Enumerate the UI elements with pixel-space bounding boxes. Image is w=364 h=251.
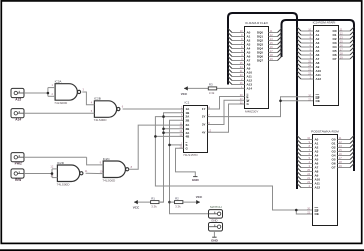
ROM pin A9 wire + bus entry [301, 66, 314, 68]
wire branch -> PODSTAWKA OE [296, 210, 312, 214]
wire VCC -> R1 [134, 201, 150, 203]
svg-text:IC1: IC1 [185, 101, 190, 105]
IC1 pin 13 (4B) stub [182, 135, 184, 137]
RAM pin A6 wire + bus entry [232, 56, 245, 58]
svg-text:R2: R2 [175, 196, 179, 200]
ROM chip IC3-ROM-ATARI [314, 26, 339, 106]
RAM pin A1 wire + bus entry [232, 36, 245, 38]
wire net V3 -> R2 [170, 201, 175, 203]
IC1 pin 3 (1B) stub [182, 112, 184, 114]
RAM pin DQ0 wire + bus entry [269, 32, 278, 34]
junction V2/3B [162, 128, 165, 131]
wire IC1 2Y -> ROM CE [209, 97, 313, 117]
wire IC1 3B stub [164, 128, 182, 130]
ROM pin O5 wire + bus entry [339, 50, 351, 52]
connector A15 [11, 88, 24, 101]
svg-text:SWITCH: SWITCH [210, 205, 222, 209]
RAM pin A7 wire + bus entry [232, 60, 245, 62]
IC1 pin 6 (2B) stub [182, 119, 184, 121]
RAM pin A0 wire + bus entry [232, 32, 245, 34]
PODSTAWKA pin A4 wire + bus entry [301, 155, 313, 157]
RAM pin DQ5 wire + bus entry [269, 52, 278, 54]
ROM pin A12 wire + bus entry [301, 78, 314, 80]
switch connector (upper) [209, 210, 223, 219]
svg-text:IC2A: IC2A [55, 80, 63, 84]
RAM pin DQ6 wire + bus entry [269, 56, 278, 58]
svg-text:74LS00D: 74LS00D [94, 118, 108, 122]
RAM pin DQ7 wire + bus entry [269, 60, 278, 62]
junction R/W/IC2D inputs [51, 172, 54, 175]
RAM pin A3 wire + bus entry [232, 44, 245, 46]
PODSTAWKA pin O5 wire + bus entry [338, 159, 351, 161]
wire VCC - R3 - RAM A14 [184, 87, 245, 89]
ROM pin A6 wire + bus entry [301, 54, 314, 56]
IC1 pin 9 (3Y) stub [208, 124, 210, 126]
IC1 pin 12 (4Y) stub [208, 131, 210, 133]
data bus (RAM DQ -> ROM/PODSTAWKA outputs) [282, 20, 355, 171]
RAM pin A10 wire + bus entry [232, 72, 245, 74]
ROM pin A10 wire + bus entry [301, 70, 314, 72]
wire branch -> ROM OE [281, 100, 314, 102]
svg-text:VCC: VCC [181, 92, 188, 96]
svg-text:VCC: VCC [133, 206, 140, 210]
svg-text:A14: A14 [247, 87, 253, 91]
RAM pin A5 wire + bus entry [232, 52, 245, 54]
wire IC2D out pin11 -> IC2C pin10 [86, 172, 104, 174]
wire R/W -> IC2D inputs [24, 173, 52, 175]
svg-text:PODSTAWKA-ROM: PODSTAWKA-ROM [311, 129, 339, 133]
wire IC1 3Y -> RAM W [209, 100, 245, 124]
svg-text:O7: O7 [331, 166, 335, 170]
svg-text:74LS00D: 74LS00D [54, 101, 68, 105]
IC1 pin 2 (1A) stub [182, 108, 184, 110]
RAM pin A11 wire + bus entry [232, 76, 245, 78]
svg-text:A12: A12 [315, 186, 321, 190]
IC1 pin 10 (3B) stub [182, 128, 184, 130]
junction V2/4A [162, 131, 165, 134]
RAM pin A4 wire + bus entry [232, 48, 245, 50]
wire net V3: IC1 2B -> down -> SWITCH [170, 120, 209, 214]
connector A14 [11, 109, 24, 122]
wire IC2B out -> IC1 1A [123, 108, 182, 110]
ROM pin A2 wire + bus entry [301, 38, 314, 40]
PODSTAWKA pin A5 wire + bus entry [301, 159, 313, 161]
ROM pin A11 wire + bus entry [301, 74, 314, 76]
IC1 pin 7 (2Y) stub [208, 116, 210, 118]
svg-text:IC2B: IC2B [94, 97, 101, 101]
RAM pin A12 wire + bus entry [232, 80, 245, 82]
ROM pin O7 wire + bus entry [339, 58, 351, 60]
power VCC at R2 [196, 195, 203, 204]
junction V3/R2 [168, 201, 171, 204]
address bus (RAM left -> ROM/PODSTAWKA left) [228, 13, 297, 189]
svg-text:M48Z30Y: M48Z30Y [245, 109, 258, 113]
svg-text:2Y: 2Y [202, 115, 206, 119]
junction ROM OE [279, 100, 282, 103]
ROM pin A8 wire + bus entry [301, 62, 314, 64]
svg-text:GND: GND [192, 178, 200, 182]
svg-text:OE: OE [315, 212, 319, 216]
wire PHI2 -> IC2C pin9 [87, 157, 104, 165]
wire IC1 S pin stub [170, 144, 182, 146]
svg-text:DQ7: DQ7 [257, 59, 263, 63]
ROM pin O1 wire + bus entry [339, 34, 351, 36]
RAM pin DQ4 wire + bus entry [269, 48, 278, 50]
RAM pin DQ3 wire + bus entry [269, 44, 278, 46]
svg-text:74LS00D: 74LS00D [57, 182, 71, 186]
PODSTAWKA pin A7 wire + bus entry [301, 167, 313, 169]
wire A15 -> IC2A inputs [24, 92, 48, 94]
socket chip PODSTAWKA-ROM [313, 135, 338, 226]
RAM chip IC-RAM-R FLEX (M48Z30Y) [245, 27, 269, 109]
wire IC2D input tie [51, 169, 53, 178]
wire net V2: IC1 1B -> down -> R1 [159, 113, 182, 202]
PODSTAWKA pin A9 wire + bus entry [301, 175, 313, 177]
svg-text:R3: R3 [209, 83, 213, 87]
ROM pin O2 wire + bus entry [339, 38, 351, 40]
junction V2/2A [162, 115, 165, 118]
PODSTAWKA pin O4 wire + bus entry [338, 155, 351, 157]
PODSTAWKA pin A8 wire + bus entry [301, 171, 313, 173]
svg-text:3.3k: 3.3k [175, 205, 181, 209]
resistor R3 3.3k [208, 83, 216, 95]
svg-text:O7: O7 [332, 57, 336, 61]
svg-text:IC3-ROM-ATARI: IC3-ROM-ATARI [313, 21, 336, 25]
ground below switch [211, 237, 219, 242]
PODSTAWKA pin A11 wire + bus entry [301, 183, 313, 185]
svg-text:1Y: 1Y [202, 107, 206, 111]
svg-text:4Y: 4Y [202, 130, 206, 134]
power VCC at R3 [181, 86, 188, 96]
nand gate IC2B (74LS00D) [94, 97, 120, 123]
junction V1/4B [154, 135, 157, 138]
PODSTAWKA pin O1 wire + bus entry [338, 143, 351, 145]
wire IC1 4B stub [155, 135, 181, 137]
ground below IC1 [192, 177, 200, 182]
svg-text:3.3k: 3.3k [151, 205, 157, 209]
svg-text:VCC: VCC [196, 195, 203, 199]
wire IC2A out -> IC2B pin4 [82, 92, 94, 105]
nand gate IC2D (74LS00D) [57, 161, 83, 187]
ROM pin A1 wire + bus entry [301, 34, 314, 36]
wire net V1: IC1 2A -> long run -> PODSTAWKA CE [155, 117, 312, 210]
IC1 pin 14 (4A) stub [182, 132, 184, 134]
PODSTAWKA pin A12 wire + bus entry [301, 187, 313, 189]
svg-text:OE: OE [316, 99, 320, 103]
PODSTAWKA pin A10 wire + bus entry [301, 179, 313, 181]
IC1 pin 11 (3A) stub [182, 124, 184, 126]
power VCC at R1 [133, 200, 140, 210]
RAM pin A9 wire + bus entry [232, 68, 245, 70]
svg-text:3.3k: 3.3k [209, 91, 215, 95]
svg-text:PHI2: PHI2 [15, 162, 22, 166]
svg-text:3Y: 3Y [202, 123, 206, 127]
multiplexer IC1 74LS157D [184, 106, 208, 153]
connector PHI2 [11, 153, 24, 166]
PODSTAWKA pin A3 wire + bus entry [301, 151, 313, 153]
ROM pin O4 wire + bus entry [339, 46, 351, 48]
wire IC1 4A stub [164, 132, 182, 134]
svg-text:A14: A14 [15, 118, 21, 122]
ROM pin A4 wire + bus entry [301, 46, 314, 48]
PODSTAWKA pin O2 wire + bus entry [338, 147, 351, 149]
junction V3/S [168, 144, 171, 147]
ROM pin A0 wire + bus entry [301, 30, 314, 32]
wire IC1 1Y -> RAM E [209, 97, 245, 110]
wire IC1 G pin -> ground [176, 148, 196, 176]
wire R1 -> net V2 [159, 201, 164, 203]
RAM pin DQ1 wire + bus entry [269, 36, 278, 38]
PODSTAWKA pin O0 wire + bus entry [338, 139, 351, 141]
RAM pin A13 wire + bus entry [232, 84, 245, 86]
svg-text:74LS157D: 74LS157D [183, 153, 198, 157]
junction PODSTAWKA CE/OE [295, 209, 298, 212]
junction A15/IC2A inputs [47, 92, 50, 95]
ROM pin A3 wire + bus entry [301, 42, 314, 44]
wire IC2A input tie [47, 88, 49, 97]
switch connector (lower) [209, 223, 223, 232]
PODSTAWKA pin A6 wire + bus entry [301, 163, 313, 165]
svg-text:IC-RAM-R FLEX: IC-RAM-R FLEX [245, 21, 268, 25]
ROM pin A5 wire + bus entry [301, 50, 314, 52]
RAM pin DQ2 wire + bus entry [269, 40, 278, 42]
IC1 pin 5 (2A) stub [182, 116, 184, 118]
wire IC1 4Y -> RAM G [209, 104, 245, 132]
ROM pin O3 wire + bus entry [339, 42, 351, 44]
wire R2 -> VCC [183, 201, 200, 203]
resistor R2 3.3k [175, 196, 183, 208]
svg-text:GND: GND [211, 239, 219, 243]
IC1 pin 4 (1Y) stub [208, 108, 210, 110]
RAM pin A8 wire + bus entry [232, 64, 245, 66]
ROM pin A7 wire + bus entry [301, 58, 314, 60]
resistor R1 3.3k [151, 196, 159, 208]
ROM pin O6 wire + bus entry [339, 54, 351, 56]
svg-text:A12: A12 [316, 77, 322, 81]
wire IC2C out -> IC1 3A [129, 125, 182, 169]
PODSTAWKA pin A1 wire + bus entry [301, 143, 313, 145]
wire A14 -> IC2B pin5 [24, 112, 94, 114]
RAM pin A2 wire + bus entry [232, 40, 245, 42]
svg-text:R/W: R/W [15, 178, 21, 182]
svg-text:74LS00D: 74LS00D [102, 178, 116, 182]
PODSTAWKA pin A0 wire + bus entry [301, 139, 313, 141]
PODSTAWKA pin O3 wire + bus entry [338, 151, 351, 153]
PODSTAWKA pin A2 wire + bus entry [301, 147, 313, 149]
svg-text:IC2C: IC2C [103, 157, 111, 161]
wire switch lower -> ground [213, 231, 215, 237]
connector R/W [11, 169, 24, 182]
PODSTAWKA pin O6 wire + bus entry [338, 163, 351, 165]
nand gate IC2A (74LS00D) [54, 80, 80, 106]
nand gate IC2C (74LS00D) [102, 157, 128, 183]
svg-text:A15: A15 [15, 97, 21, 101]
wire PHI2 east [24, 156, 87, 158]
svg-text:R1: R1 [151, 196, 155, 200]
PODSTAWKA pin O7 wire + bus entry [338, 167, 351, 169]
ROM pin O0 wire + bus entry [339, 30, 351, 32]
svg-text:IC2D: IC2D [57, 161, 65, 165]
bottom edge black strip [0, 249, 364, 251]
